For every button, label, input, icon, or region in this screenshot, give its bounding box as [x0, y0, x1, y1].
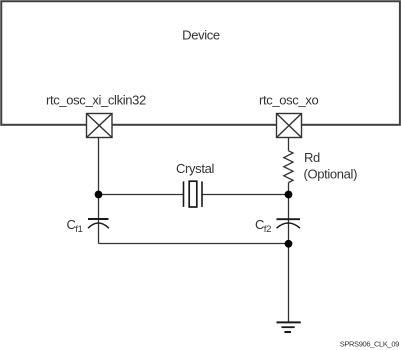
- pin rtc_osc_xi_clkin32: [87, 114, 113, 138]
- svg-text:SPRS906_CLK_09: SPRS906_CLK_09: [340, 339, 399, 348]
- crystal Y1: [184, 181, 203, 207]
- junction node B (crystal right / Rd bottom): [285, 191, 293, 199]
- junction node A (crystal left): [95, 191, 103, 199]
- svg-text:(Optional): (Optional): [304, 166, 358, 181]
- ground: [277, 322, 301, 332]
- wire from pin rtc_osc_xo to resistor Rd: [288, 138, 290, 151]
- svg-text:C: C: [67, 217, 76, 232]
- wire crystal right segment: [202, 194, 289, 196]
- capacitor C_f2: [277, 219, 301, 228]
- wire right branch (Rd bottom through C_f2 to ground): [288, 183, 290, 323]
- svg-text:rtc_osc_xo: rtc_osc_xo: [259, 93, 318, 108]
- svg-text:Rd: Rd: [304, 150, 320, 165]
- wire bottom net (C_f1 bottom to C_f2 bottom): [99, 243, 289, 245]
- device block U1: [1, 1, 400, 125]
- svg-text:rtc_osc_xi_clkin32: rtc_osc_xi_clkin32: [46, 93, 146, 108]
- capacitor C_f1: [88, 219, 109, 228]
- junction node C (C_f2 bottom / ground net): [285, 240, 293, 248]
- resistor Rd: [284, 151, 293, 183]
- svg-text:Device: Device: [182, 28, 220, 43]
- pin rtc_osc_xo: [277, 114, 302, 138]
- wire crystal left segment: [99, 194, 184, 196]
- svg-text:f1: f1: [75, 224, 82, 235]
- wire from pin rtc_osc_xi_clkin32 down left branch: [98, 138, 100, 244]
- svg-text:Crystal: Crystal: [176, 161, 214, 176]
- svg-text:f2: f2: [264, 224, 271, 235]
- svg-text:C: C: [255, 217, 264, 232]
